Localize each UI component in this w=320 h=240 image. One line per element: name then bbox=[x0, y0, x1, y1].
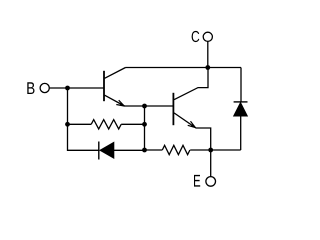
junction mid bottom bbox=[142, 148, 147, 153]
wire left rail bbox=[68, 88, 99, 150]
wire B to Q1 base bbox=[49, 87, 103, 89]
transistor Q2 bbox=[173, 68, 210, 151]
diode D1 bbox=[99, 142, 145, 160]
terminal E bbox=[206, 177, 216, 187]
terminal B bbox=[40, 83, 49, 92]
wire top rail bbox=[126, 67, 242, 69]
junction left rail R1 bbox=[65, 122, 70, 127]
diode D2 bbox=[234, 102, 248, 150]
junction E node bbox=[208, 148, 213, 153]
node C label bbox=[192, 31, 200, 42]
wire mid rail bbox=[144, 106, 146, 150]
resistor R1 bbox=[68, 120, 145, 129]
node B label bbox=[27, 82, 34, 94]
resistor R2 bbox=[145, 145, 211, 154]
wire bottom right bbox=[211, 149, 241, 151]
wire E terminal drop bbox=[210, 150, 212, 177]
wire right rail upper bbox=[240, 68, 242, 102]
junction at B rail bbox=[65, 86, 70, 91]
wire Q1 emitter to Q2 base bbox=[124, 105, 173, 107]
terminal C bbox=[203, 32, 212, 41]
wire C terminal drop bbox=[207, 42, 209, 68]
junction mid R1 bbox=[142, 122, 147, 127]
node E label bbox=[194, 175, 200, 187]
transistor Q1 bbox=[104, 68, 126, 107]
junction mid top bbox=[142, 104, 147, 109]
junction C node bbox=[205, 65, 210, 70]
